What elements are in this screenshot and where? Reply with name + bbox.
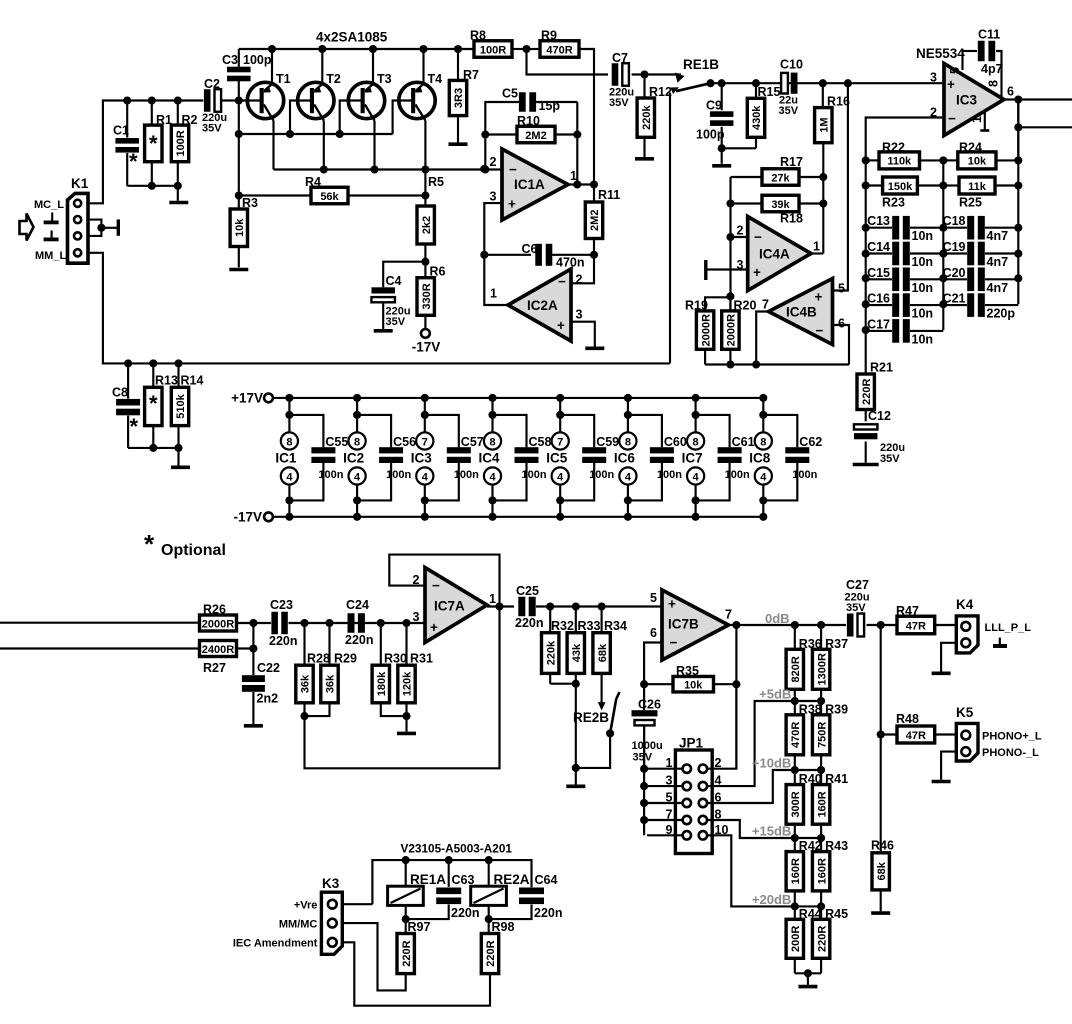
op-amp IC2A xyxy=(508,269,571,341)
resistor R34 xyxy=(601,607,603,633)
svg-text:R8: R8 xyxy=(470,29,486,43)
JP1 pins 7/8 xyxy=(647,808,722,825)
svg-text:4x2SA1085: 4x2SA1085 xyxy=(316,30,388,45)
svg-text:10k: 10k xyxy=(684,680,703,692)
resistor R5 xyxy=(417,206,434,244)
svg-text:R5: R5 xyxy=(428,175,444,189)
svg-text:27k: 27k xyxy=(771,172,790,184)
wire collector bus xyxy=(274,168,503,170)
svg-text:+10dB: +10dB xyxy=(752,756,791,771)
svg-text:K3: K3 xyxy=(322,876,340,891)
resistor R47 xyxy=(897,616,935,634)
svg-text:C11: C11 xyxy=(978,28,1000,42)
capacitor C7 xyxy=(612,63,619,86)
svg-text:43k: 43k xyxy=(571,643,583,662)
JP1 pins 1/2 xyxy=(647,756,722,773)
ground xyxy=(169,201,188,205)
svg-text:100p: 100p xyxy=(696,128,725,142)
svg-text:150k: 150k xyxy=(888,181,913,193)
svg-text:C59: C59 xyxy=(596,435,619,449)
IC power pins IC1 xyxy=(275,394,298,521)
svg-text:+: + xyxy=(753,265,761,280)
svg-text:120k: 120k xyxy=(402,671,414,696)
svg-text:3: 3 xyxy=(490,190,497,204)
svg-text:R15: R15 xyxy=(758,85,781,99)
wire +17V rail xyxy=(273,397,765,399)
svg-text:C55: C55 xyxy=(325,435,348,449)
wire R26 R27 join xyxy=(237,622,271,624)
svg-text:RE1A: RE1A xyxy=(410,872,446,887)
resistor R29 xyxy=(328,623,330,665)
svg-text:3: 3 xyxy=(576,308,583,322)
svg-text:35V: 35V xyxy=(633,752,653,764)
svg-text:5: 5 xyxy=(948,67,962,74)
svg-text:100n: 100n xyxy=(725,469,750,481)
wire IC7A output xyxy=(487,605,514,607)
capacitor C22 xyxy=(242,675,265,682)
wire JP1 pin10 tap +20dB xyxy=(707,835,795,906)
wire output row xyxy=(742,624,846,626)
capacitor C21 xyxy=(943,304,967,306)
JP1 pins 9/10 xyxy=(647,823,728,840)
capacitor C63 xyxy=(448,860,450,887)
resistor R12 xyxy=(643,75,645,99)
svg-text:T2: T2 xyxy=(326,72,341,86)
capacitor C10 xyxy=(781,73,788,94)
svg-text:K5: K5 xyxy=(956,705,974,720)
node +10dB xyxy=(795,769,821,771)
wire RIAA mid rail xyxy=(942,160,944,330)
svg-text:R35: R35 xyxy=(676,664,699,678)
svg-text:R39: R39 xyxy=(825,702,848,716)
svg-text:7: 7 xyxy=(725,608,732,622)
svg-text:6: 6 xyxy=(650,626,657,640)
svg-text:IC1A: IC1A xyxy=(514,177,545,192)
svg-text:R46: R46 xyxy=(871,839,894,853)
svg-text:IC4B: IC4B xyxy=(786,305,817,320)
svg-text:R9: R9 xyxy=(541,29,557,43)
ground xyxy=(932,780,951,784)
svg-text:C60: C60 xyxy=(664,435,687,449)
svg-text:68k: 68k xyxy=(876,861,888,880)
svg-text:160R: 160R xyxy=(816,791,828,817)
svg-text:R32: R32 xyxy=(551,619,574,633)
svg-text:4p7: 4p7 xyxy=(981,62,1003,76)
svg-text:C58: C58 xyxy=(529,435,552,449)
svg-text:R22: R22 xyxy=(882,141,905,155)
svg-text:NE5534: NE5534 xyxy=(916,46,965,61)
resistor R23 xyxy=(866,184,883,186)
capacitor C23 xyxy=(271,612,278,635)
svg-text:IC2A: IC2A xyxy=(527,298,558,313)
svg-text:8: 8 xyxy=(354,436,360,448)
svg-text:IC3: IC3 xyxy=(956,93,978,108)
svg-text:R19: R19 xyxy=(685,299,708,313)
resistor R18 xyxy=(726,199,734,207)
capacitor C9 xyxy=(721,83,723,110)
svg-text:R41: R41 xyxy=(825,772,848,786)
resistor R17 xyxy=(731,176,763,178)
svg-text:2: 2 xyxy=(490,155,497,169)
relay contact RE1B xyxy=(675,73,685,83)
terminal -17V xyxy=(421,329,430,338)
svg-text:IC7A: IC7A xyxy=(434,599,465,614)
svg-text:8: 8 xyxy=(286,436,292,448)
wire JP1 pin4 tap +5dB xyxy=(707,701,795,786)
svg-text:100n: 100n xyxy=(792,469,817,481)
capacitor C12 xyxy=(854,424,878,429)
svg-text:C21: C21 xyxy=(943,292,966,306)
resistor R43 xyxy=(812,838,848,906)
svg-text:C25: C25 xyxy=(516,584,539,598)
svg-text:100p: 100p xyxy=(243,53,272,67)
svg-text:R12: R12 xyxy=(649,85,672,99)
svg-text:100R: 100R xyxy=(480,44,506,56)
wire IC3 pin5 stub xyxy=(961,51,963,70)
svg-text:IC4: IC4 xyxy=(479,451,501,466)
svg-text:2M2: 2M2 xyxy=(525,130,546,142)
svg-text:C15: C15 xyxy=(867,266,890,280)
svg-text:PHONO-_L: PHONO-_L xyxy=(982,747,1039,759)
svg-text:180k: 180k xyxy=(376,671,388,696)
svg-text:MM/MC: MM/MC xyxy=(279,919,318,931)
wire MC/MM select row xyxy=(711,82,945,84)
svg-text:C13: C13 xyxy=(867,214,890,228)
svg-text:4n7: 4n7 xyxy=(987,255,1009,269)
capacitor C15 xyxy=(866,278,892,280)
wire IC3 pin2 xyxy=(866,118,944,161)
svg-text:3: 3 xyxy=(930,71,937,85)
svg-text:R3: R3 xyxy=(242,196,258,210)
IC power pins IC8 xyxy=(749,394,772,521)
IC power pins IC7 xyxy=(682,394,705,521)
resistor R1 xyxy=(148,96,156,104)
svg-text:220n: 220n xyxy=(534,906,563,920)
svg-text:1: 1 xyxy=(970,116,984,123)
resistor R21 xyxy=(857,374,874,410)
svg-text:C23: C23 xyxy=(270,598,293,612)
ground xyxy=(374,329,393,333)
wire IC7A feedback bottom xyxy=(305,607,500,769)
ground tick xyxy=(999,638,1001,645)
resistor R8 xyxy=(474,41,512,58)
svg-text:R16: R16 xyxy=(827,95,850,109)
svg-text:R4: R4 xyxy=(305,175,321,189)
svg-text:8: 8 xyxy=(760,436,766,448)
svg-text:4: 4 xyxy=(625,471,632,483)
connector K1 xyxy=(68,193,89,263)
svg-text:C8: C8 xyxy=(112,386,128,400)
wire R32 R33 join xyxy=(550,683,576,685)
svg-text:47R: 47R xyxy=(906,730,926,742)
svg-text:R30: R30 xyxy=(384,652,407,666)
resistor R41 xyxy=(812,770,848,838)
svg-text:+: + xyxy=(947,77,955,92)
svg-text:K1: K1 xyxy=(71,176,89,191)
capacitor C17 xyxy=(866,330,892,332)
svg-text:C61: C61 xyxy=(732,435,755,449)
IC power pins IC5 xyxy=(546,394,569,521)
svg-text:7: 7 xyxy=(422,436,428,448)
svg-text:5: 5 xyxy=(838,282,845,296)
IC power pins IC3 xyxy=(411,394,434,521)
svg-text:R21: R21 xyxy=(870,361,893,375)
svg-text:330R: 330R xyxy=(421,283,433,309)
cartridge terminal upper xyxy=(51,213,53,222)
op-amp IC4B xyxy=(769,279,833,345)
svg-text:-17V: -17V xyxy=(233,510,262,525)
svg-text:MC_L: MC_L xyxy=(34,199,64,211)
svg-text:C12: C12 xyxy=(868,409,891,423)
svg-text:100R: 100R xyxy=(175,130,187,156)
svg-text:5: 5 xyxy=(666,791,673,805)
IC power pins IC2 xyxy=(343,394,366,521)
transistor T4 xyxy=(399,45,442,170)
op-amp IC1A xyxy=(502,149,568,220)
resistor R35 xyxy=(644,683,673,685)
wire collector column xyxy=(424,170,426,207)
resistor R10 xyxy=(481,130,489,138)
svg-text:220n: 220n xyxy=(269,634,298,648)
svg-text:R13: R13 xyxy=(155,374,178,388)
capacitor C13 xyxy=(866,227,892,229)
transistor T3 xyxy=(348,45,391,170)
svg-text:1: 1 xyxy=(489,592,496,606)
svg-text:430k: 430k xyxy=(751,105,763,130)
svg-text:10n: 10n xyxy=(912,255,934,269)
resistor R30 xyxy=(380,623,382,665)
svg-text:1000u: 1000u xyxy=(632,740,663,752)
svg-text:10k: 10k xyxy=(968,156,987,168)
svg-text:LLL_P_L: LLL_P_L xyxy=(985,622,1032,634)
wire R9 to IC1A output xyxy=(579,49,594,185)
resistor R11 xyxy=(593,185,595,203)
svg-text:+: + xyxy=(430,620,438,635)
svg-text:100n: 100n xyxy=(318,469,343,481)
connector K5 xyxy=(956,723,978,761)
cartridge terminal lower xyxy=(51,231,53,239)
wire JP1 pin6 tap +10dB xyxy=(707,770,795,803)
svg-text:R37: R37 xyxy=(825,637,848,651)
wire follower bus xyxy=(705,363,849,365)
svg-text:+: + xyxy=(815,290,823,305)
capacitor C60 xyxy=(628,415,687,501)
svg-text:100n: 100n xyxy=(454,469,479,481)
svg-text:220n: 220n xyxy=(451,906,480,920)
capacitor C56 xyxy=(357,415,416,501)
svg-text:10n: 10n xyxy=(912,307,934,321)
resistor R7 xyxy=(454,45,462,53)
svg-text:R2: R2 xyxy=(182,113,198,127)
IC power pins IC6 xyxy=(614,394,637,521)
svg-text:IC2: IC2 xyxy=(343,451,364,466)
resistor R13 xyxy=(149,359,157,367)
transistor T1 xyxy=(247,45,290,170)
svg-text:100n: 100n xyxy=(386,469,411,481)
resistor R31 xyxy=(405,623,407,665)
wire IC4A feedback column xyxy=(822,177,824,254)
resistor R16 xyxy=(822,83,824,107)
resistor R27 xyxy=(200,641,237,657)
capacitor C8 xyxy=(124,359,132,367)
svg-text:R29: R29 xyxy=(334,652,357,666)
svg-text:Optional: Optional xyxy=(161,542,226,559)
svg-text:R97: R97 xyxy=(408,920,431,934)
svg-text:2M2: 2M2 xyxy=(589,210,601,231)
resistor R32 xyxy=(549,607,551,633)
svg-text:T1: T1 xyxy=(276,72,291,86)
svg-text:IC5: IC5 xyxy=(546,451,568,466)
wire input line upper xyxy=(0,622,200,624)
svg-text:220R: 220R xyxy=(401,940,413,966)
resistor R42 xyxy=(786,838,822,906)
op-amp IC4A xyxy=(748,217,811,291)
wire K5 pin2 to ground xyxy=(941,752,956,780)
svg-text:R20: R20 xyxy=(734,299,757,313)
svg-text:2000R: 2000R xyxy=(202,618,234,630)
svg-text:3: 3 xyxy=(666,774,673,788)
svg-text:36k: 36k xyxy=(300,674,312,693)
wire C2 to T1 base xyxy=(222,99,262,101)
capacitor C55 xyxy=(289,415,348,501)
svg-text:C19: C19 xyxy=(943,240,966,254)
ground xyxy=(798,985,817,989)
svg-text:220p: 220p xyxy=(987,307,1016,321)
svg-text:4: 4 xyxy=(489,471,496,483)
svg-text:R33: R33 xyxy=(578,619,601,633)
wire IC1A pin3 xyxy=(484,203,508,305)
wire output branch xyxy=(880,625,882,853)
svg-text:6: 6 xyxy=(1007,85,1014,99)
svg-text:C62: C62 xyxy=(799,435,822,449)
svg-text:C57: C57 xyxy=(461,435,484,449)
svg-text:1: 1 xyxy=(666,756,673,770)
svg-text:4: 4 xyxy=(557,471,564,483)
svg-text:C1: C1 xyxy=(113,124,129,138)
svg-text:1M: 1M xyxy=(819,118,831,133)
capacitor C5 xyxy=(519,92,526,112)
wire output feedback tap xyxy=(1017,100,1019,161)
svg-text:160R: 160R xyxy=(790,858,802,884)
svg-text:C6: C6 xyxy=(522,242,538,256)
capacitor C18 xyxy=(943,227,967,229)
svg-text:10k: 10k xyxy=(234,218,246,237)
wire IC4B pin6 xyxy=(833,325,850,365)
svg-text:*: * xyxy=(129,149,138,174)
svg-text:35V: 35V xyxy=(880,453,900,465)
wire base column xyxy=(238,101,240,210)
resistor R33 xyxy=(575,607,577,633)
relay coil RE2A xyxy=(488,860,490,886)
svg-text:C64: C64 xyxy=(535,873,558,887)
resistor R25 xyxy=(943,184,959,186)
svg-text:IEC Amendment: IEC Amendment xyxy=(233,938,318,950)
capacitor C20 xyxy=(943,278,967,280)
svg-text:300R: 300R xyxy=(790,791,802,817)
svg-text:C3: C3 xyxy=(222,53,238,67)
svg-text:+: + xyxy=(668,597,676,612)
ground xyxy=(585,346,604,350)
ground xyxy=(244,724,263,728)
ground xyxy=(171,465,190,469)
relay coil RE1A xyxy=(405,860,407,886)
svg-text:R7: R7 xyxy=(463,68,479,82)
svg-text:C26: C26 xyxy=(638,698,661,712)
capacitor C62 xyxy=(763,415,822,501)
capacitor C19 xyxy=(943,252,967,254)
relay contact RE2B xyxy=(598,702,606,711)
resistor R39 xyxy=(812,701,848,770)
op-amp IC3 xyxy=(944,64,1004,136)
node MC input arrow xyxy=(20,214,34,241)
svg-text:R43: R43 xyxy=(825,839,848,853)
wire IC7A pin2 loop xyxy=(389,555,499,607)
svg-text:4: 4 xyxy=(760,471,767,483)
svg-text:220R: 220R xyxy=(485,940,497,966)
capacitor C3 xyxy=(238,49,240,67)
svg-text:C22: C22 xyxy=(257,661,280,675)
capacitor C26 xyxy=(643,684,645,710)
wire K3 pin3 to R98 xyxy=(342,942,490,1005)
wire feedback right xyxy=(576,102,578,185)
svg-text:10n: 10n xyxy=(912,229,934,243)
svg-text:35V: 35V xyxy=(779,105,799,117)
wire IC4A pin3 xyxy=(708,268,748,270)
svg-text:C18: C18 xyxy=(943,214,966,228)
connector K4 xyxy=(956,616,978,653)
wire base bus xyxy=(239,133,393,135)
svg-text:C16: C16 xyxy=(867,292,890,306)
svg-text:C2: C2 xyxy=(204,77,220,91)
svg-text:510k: 510k xyxy=(175,393,187,418)
transistor T2 xyxy=(298,45,341,170)
svg-text:8: 8 xyxy=(489,436,495,448)
svg-text:220R: 220R xyxy=(861,379,873,405)
svg-text:9: 9 xyxy=(666,823,673,837)
resistor R3 xyxy=(230,209,247,247)
capacitor C57 xyxy=(425,415,484,501)
svg-text:35V: 35V xyxy=(609,97,629,109)
capacitor C59 xyxy=(560,415,619,501)
resistor R37 xyxy=(812,625,848,701)
wire RIAA left rail xyxy=(865,160,867,374)
resistor R15 xyxy=(755,83,757,98)
svg-text:100n: 100n xyxy=(657,469,682,481)
wire node A to C7 xyxy=(527,49,609,75)
svg-text:7: 7 xyxy=(557,436,563,448)
wire IC1A pin2 xyxy=(480,165,488,173)
svg-text:R34: R34 xyxy=(604,619,627,633)
svg-text:R98: R98 xyxy=(492,920,515,934)
svg-text:−: − xyxy=(948,111,956,126)
svg-text:200R: 200R xyxy=(790,926,802,952)
wire K3 pin2 to R97 xyxy=(342,923,405,990)
wire C23 to pin3 row xyxy=(289,622,426,624)
svg-text:3R3: 3R3 xyxy=(453,88,465,108)
svg-text:IC8: IC8 xyxy=(749,451,771,466)
capacitor C24 xyxy=(348,613,355,633)
resistor R14 xyxy=(174,359,182,367)
resistor R44 xyxy=(786,906,822,973)
svg-text:11k: 11k xyxy=(968,181,987,193)
svg-text:K4: K4 xyxy=(956,597,974,612)
svg-text:−: − xyxy=(509,162,517,177)
svg-text:T4: T4 xyxy=(428,72,443,86)
svg-text:2000R: 2000R xyxy=(726,314,738,346)
wire K4 pin2 to ground xyxy=(941,643,956,672)
svg-text:35V: 35V xyxy=(202,123,222,135)
capacitor C25 xyxy=(518,597,525,617)
